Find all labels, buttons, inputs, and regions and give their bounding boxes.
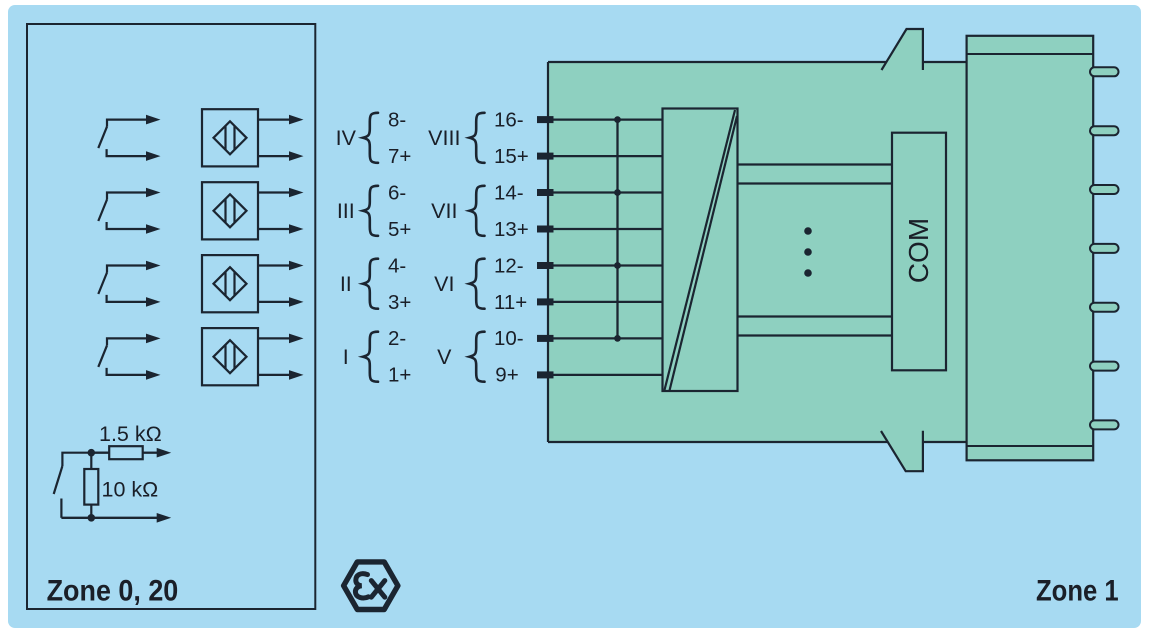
svg-text:15+: 15+	[494, 145, 529, 168]
brace channel VIII	[470, 113, 485, 163]
minus bus wire	[616, 120, 618, 339]
svg-text:II: II	[340, 272, 352, 296]
wire terminal 12- to isolator	[545, 264, 663, 266]
barrier module housing	[548, 29, 968, 472]
wire terminal 10- to isolator	[545, 337, 663, 339]
svg-text:3+: 3+	[388, 291, 411, 314]
brace channel I	[363, 332, 378, 382]
wire terminal 9+ to isolator	[545, 374, 663, 376]
switch S4 (NAMUR contact)	[98, 338, 147, 375]
junction dot row 16-	[614, 116, 621, 123]
terminal 13+	[537, 226, 554, 233]
svg-text:COM: COM	[903, 218, 934, 283]
junction dot row 12-	[614, 262, 621, 269]
junction dot row 14-	[614, 189, 621, 196]
brace channel IV	[363, 113, 378, 163]
svg-text:I: I	[343, 345, 349, 369]
junction dot row 10-	[614, 335, 621, 342]
svg-text:4-: 4-	[388, 254, 406, 277]
wire sensor B1 outputs	[258, 118, 291, 120]
Ex logo (ATEX hexagon)	[344, 562, 398, 610]
terminal 16-	[537, 116, 554, 123]
power rail connector block	[967, 36, 1094, 461]
power rail pin 3	[1090, 185, 1119, 194]
switch S2 (NAMUR contact)	[98, 193, 147, 230]
wire R1 to arrow	[143, 452, 158, 454]
svg-text:8-: 8-	[388, 108, 406, 131]
junction bottom	[88, 514, 96, 522]
svg-text:VI: VI	[434, 272, 454, 296]
terminal 15+	[537, 153, 554, 160]
ellipsis dots (more channels)	[804, 227, 812, 235]
brace channel II	[363, 259, 378, 309]
svg-text:2-: 2-	[388, 327, 406, 350]
wire terminal 13+ to isolator	[545, 228, 663, 230]
resistor R2 10 kOhm	[84, 469, 98, 505]
svg-text:14-: 14-	[494, 181, 524, 204]
svg-text:Zone 1: Zone 1	[1036, 575, 1119, 608]
wire isolator to COM top pair	[738, 163, 893, 165]
wire junction to R2	[90, 453, 92, 469]
switch S5	[54, 453, 92, 518]
svg-text:Zone 0, 20: Zone 0, 20	[47, 575, 179, 608]
wire R2 to bottom junction	[90, 505, 92, 518]
proximity sensor B4	[202, 328, 258, 385]
wire terminal 16- to isolator	[545, 118, 663, 120]
brace channel V	[470, 332, 485, 382]
svg-text:10 kΩ: 10 kΩ	[102, 478, 159, 502]
COM block	[892, 133, 946, 371]
wire isolator to COM bottom pair	[738, 315, 893, 317]
terminal 11+	[537, 298, 554, 305]
brace channel VI	[470, 259, 485, 309]
terminal 14-	[537, 189, 554, 196]
wire sensor B2 outputs	[258, 191, 291, 193]
resistor R1 1.5 kOhm	[109, 446, 143, 459]
svg-text:III: III	[337, 199, 355, 223]
Zone 0,20 boundary box	[27, 24, 315, 609]
svg-text:7+: 7+	[388, 145, 411, 168]
power rail pin 5	[1090, 303, 1119, 312]
wire terminal 15+ to isolator	[545, 155, 663, 157]
svg-text:IV: IV	[336, 126, 357, 150]
svg-text:10-: 10-	[494, 327, 524, 350]
terminal 9+	[537, 371, 554, 378]
wire sensor B3 outputs	[258, 264, 291, 266]
svg-text:11+: 11+	[494, 291, 527, 314]
proximity sensor B1	[202, 109, 258, 166]
brace channel III	[363, 186, 378, 236]
svg-text:V: V	[437, 345, 452, 369]
wire terminal 14- to isolator	[545, 191, 663, 193]
wire bottom branch	[61, 517, 158, 519]
wire top branch	[91, 452, 109, 454]
galvanic isolator U1	[663, 109, 738, 392]
svg-text:5+: 5+	[388, 218, 411, 241]
housing top notch	[882, 29, 923, 70]
switch S3 (NAMUR contact)	[98, 266, 147, 302]
svg-text:16-: 16-	[494, 108, 524, 131]
svg-text:VII: VII	[431, 199, 457, 223]
proximity sensor B2	[202, 182, 258, 239]
proximity sensor B3	[202, 255, 258, 312]
svg-text:1.5 kΩ: 1.5 kΩ	[99, 422, 162, 446]
power rail pin 7	[1090, 420, 1119, 429]
power rail pin 4	[1090, 244, 1119, 253]
housing bottom notch	[881, 431, 923, 472]
svg-text:6-: 6-	[388, 181, 406, 204]
power rail pin 2	[1090, 126, 1119, 135]
junction top	[88, 449, 96, 457]
svg-text:1+: 1+	[388, 364, 411, 387]
power rail pin 1	[1090, 67, 1119, 76]
svg-text:VIII: VIII	[428, 126, 460, 150]
wire sensor B4 outputs	[258, 337, 291, 339]
svg-text:13+: 13+	[494, 218, 529, 241]
terminal 12-	[537, 262, 554, 269]
svg-text:9+: 9+	[495, 364, 518, 387]
svg-text:12-: 12-	[494, 254, 524, 277]
switch S1 (NAMUR contact)	[98, 120, 147, 157]
wire terminal 11+ to isolator	[545, 301, 663, 303]
terminal 10-	[537, 335, 554, 342]
brace channel VII	[470, 186, 485, 236]
power rail pin 6	[1090, 362, 1119, 371]
